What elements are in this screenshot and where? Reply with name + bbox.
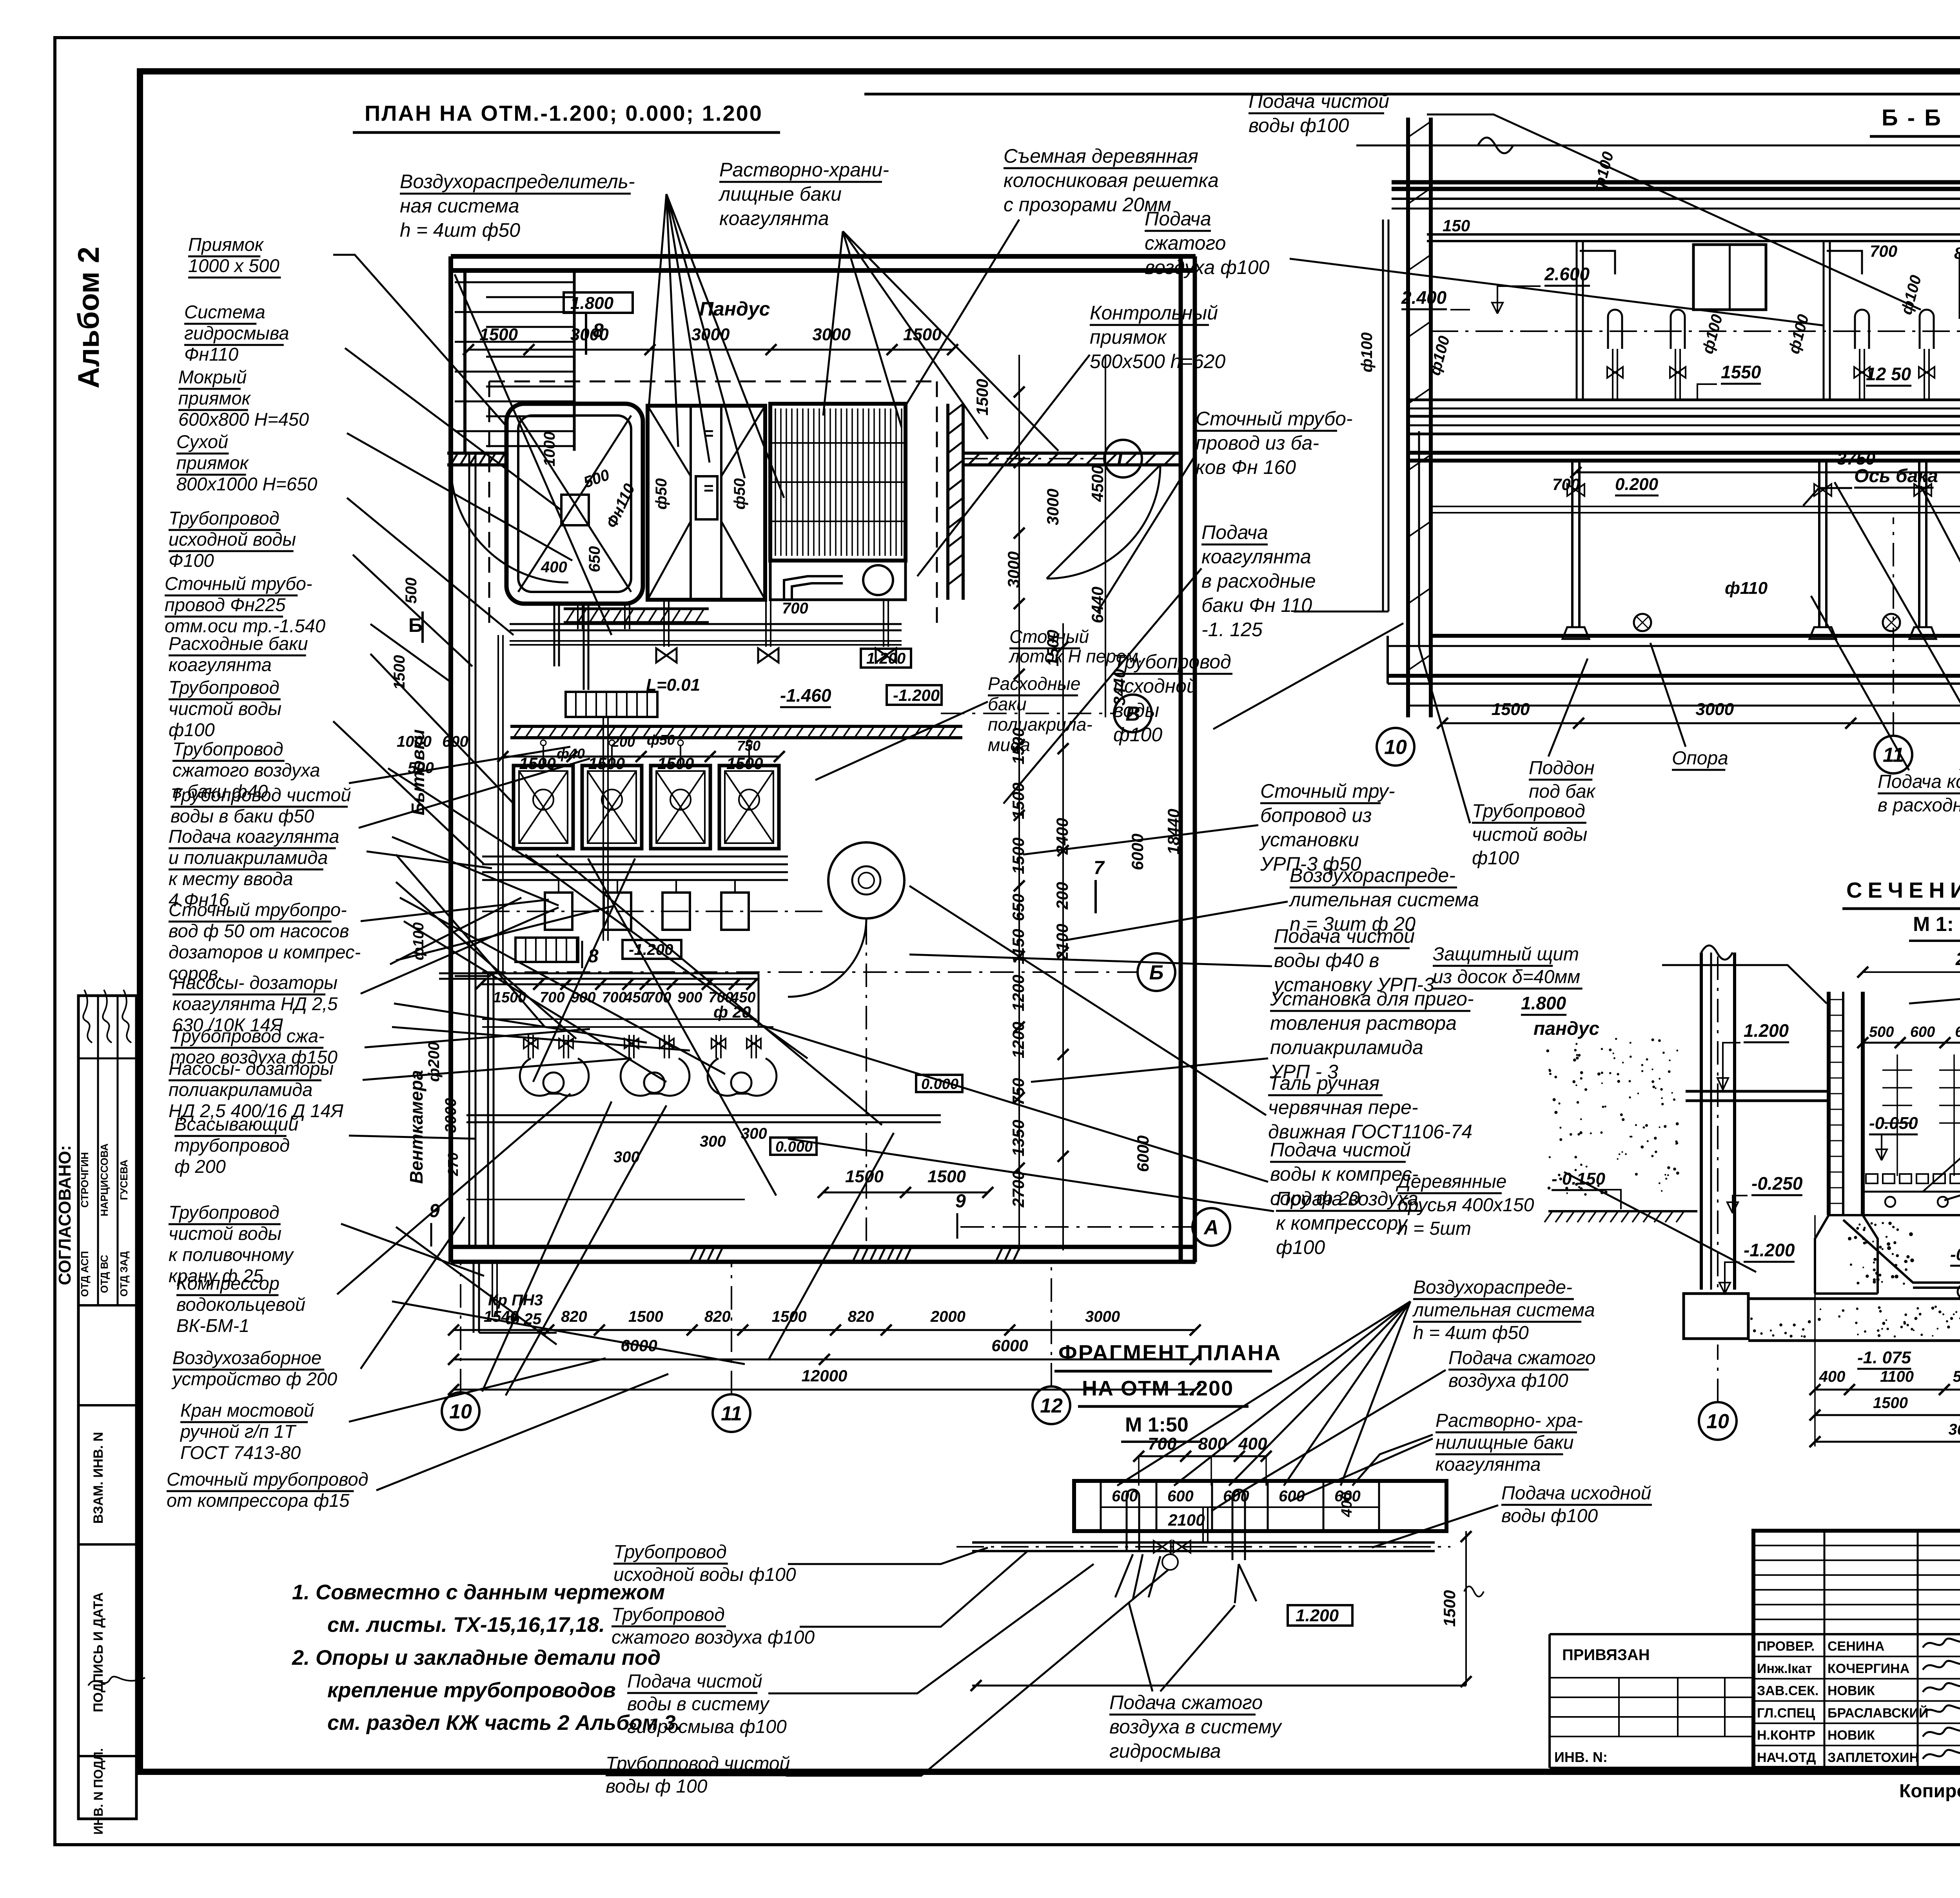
- leader line: [909, 886, 1266, 1115]
- svg-text:Ф100: Ф100: [169, 550, 214, 571]
- svg-text:ФРАГМЕНТ ПЛАНА: ФРАГМЕНТ ПЛАНА: [1058, 1340, 1282, 1365]
- label sistema gidrosmyva: [184, 301, 289, 365]
- svg-text:ф 200: ф 200: [174, 1156, 226, 1177]
- svg-text:ЗАПЛЕТОХИН: ЗАПЛЕТОХИН: [1828, 1750, 1919, 1765]
- fragment top dims: [1139, 1455, 1266, 1457]
- svg-text:-1.200: -1.200: [893, 686, 940, 704]
- svg-text:установки: установки: [1259, 829, 1359, 851]
- bb elbows at risers: [1580, 251, 1615, 274]
- svg-text:600: 600: [1955, 1024, 1960, 1040]
- svg-text:ОТД ВС: ОТД ВС: [98, 1255, 110, 1293]
- label truboprovod ishodnoj fragment: [613, 1542, 796, 1585]
- svg-text:Подача коагулянта: Подача коагулянта: [169, 826, 339, 847]
- bb dashdot line: [1431, 330, 1960, 332]
- svg-text:3000: 3000: [1085, 1308, 1120, 1325]
- internal hatched wall band: [510, 725, 962, 728]
- top dimension chain of plan: [468, 349, 953, 351]
- svg-text:6440: 6440: [1088, 587, 1107, 623]
- leader line: [370, 624, 451, 682]
- svg-text:1. Совместно с данным чертежо: 1. Совместно с данным чертежом: [292, 1580, 665, 1604]
- svg-text:1500: 1500: [628, 1308, 663, 1325]
- svg-text:750: 750: [1009, 1078, 1027, 1105]
- svg-text:воды ф40 в: воды ф40 в: [1274, 949, 1379, 971]
- svg-text:2.400: 2.400: [1401, 287, 1447, 308]
- svg-text:1500: 1500: [479, 325, 518, 344]
- leader line: [815, 702, 988, 780]
- leader line: [349, 1358, 606, 1422]
- svg-text:6000: 6000: [1134, 1136, 1152, 1172]
- svg-text:900: 900: [677, 989, 702, 1006]
- fragment bottom line: [972, 1685, 1466, 1687]
- svg-text:3000: 3000: [812, 325, 851, 344]
- svg-text:820: 820: [848, 1308, 874, 1325]
- svg-text:ная система: ная система: [400, 195, 519, 217]
- leader line: [917, 355, 1090, 576]
- label stochnyj truboprovod f50: [169, 899, 361, 983]
- svg-text:2100: 2100: [1053, 924, 1071, 961]
- svg-text:400: 400: [541, 559, 567, 576]
- leader fan: [823, 231, 843, 416]
- svg-text:гидросмыва: гидросмыва: [184, 323, 289, 343]
- manifold below baki: [482, 856, 788, 858]
- svg-text:400: 400: [1339, 1492, 1355, 1517]
- pipe risers below tank A: [577, 604, 579, 629]
- dim row small values: [481, 983, 752, 985]
- svg-text:1500: 1500: [1044, 630, 1062, 666]
- svg-text:h = 4шт ф50: h = 4шт ф50: [400, 219, 520, 241]
- svg-text:к месту ввода: к месту ввода: [169, 868, 293, 889]
- svg-text:-0.050: -0.050: [1869, 1114, 1918, 1133]
- leader line: [349, 747, 570, 783]
- svg-text:Расходные баки: Расходные баки: [169, 633, 308, 654]
- leader line: [909, 954, 1272, 966]
- svg-text:Трубопровод: Трубопровод: [169, 1202, 279, 1223]
- leader line: [370, 654, 514, 804]
- label nasosy dozatory poliakrilamida: [169, 1058, 344, 1121]
- svg-text:-1.200: -1.200: [1744, 1240, 1795, 1260]
- tank B channel: [690, 406, 692, 600]
- dim row 1500 x4: [503, 756, 779, 758]
- svg-text:500: 500: [403, 577, 420, 604]
- svg-text:8: 8: [593, 319, 604, 341]
- svg-text:18440: 18440: [1164, 809, 1183, 855]
- svg-text:1550: 1550: [1721, 362, 1761, 382]
- svg-text:ф50: ф50: [653, 478, 670, 510]
- chamber circle: [863, 565, 893, 595]
- leader line: [361, 907, 559, 994]
- label derevyannye brusya: [1396, 1171, 1534, 1239]
- svg-text:сжатого воздуха: сжатого воздуха: [172, 760, 320, 780]
- svg-text:М 1:50: М 1:50: [1125, 1414, 1189, 1436]
- bb manifold band: [1409, 399, 1960, 401]
- svg-text:-1. 075: -1. 075: [1857, 1348, 1911, 1367]
- label truboprovod ishodnoj vody: [169, 508, 296, 571]
- svg-text:от компрессора ф15: от компрессора ф15: [167, 1490, 350, 1511]
- svg-text:1500: 1500: [588, 754, 625, 773]
- fragment band outer: [1074, 1481, 1446, 1531]
- svg-text:и полиакриламида: и полиакриламида: [169, 847, 328, 868]
- svg-text:НОВИК: НОВИК: [1828, 1684, 1875, 1698]
- door swing arc left: [451, 465, 568, 582]
- svg-text:1500: 1500: [519, 754, 555, 773]
- svg-text:червячная пере-: червячная пере-: [1268, 1096, 1418, 1118]
- svg-text:1500: 1500: [1873, 1394, 1908, 1412]
- svg-text:1500: 1500: [903, 325, 942, 344]
- leader line: [1213, 623, 1403, 729]
- long vertical pipe left A: [468, 455, 470, 1247]
- svg-text:Бытовки: Бытовки: [408, 729, 428, 815]
- svg-text:крепление трубопроводов: крепление трубопроводов: [327, 1678, 616, 1702]
- svg-text:Трубопровод: Трубопровод: [169, 677, 279, 698]
- svg-text:ГУСЕВА: ГУСЕВА: [118, 1159, 130, 1200]
- svg-text:-0.320: -0.320: [1950, 1245, 1960, 1264]
- svg-text:КОЧЕРГИНА: КОЧЕРГИНА: [1828, 1661, 1909, 1676]
- bb capped risers with valves: [1608, 310, 1622, 349]
- svg-text:товления раствора: товления раствора: [1270, 1012, 1457, 1034]
- svg-text:400: 400: [1819, 1368, 1846, 1385]
- pipe bend bottom-left: [455, 975, 491, 977]
- label stochnyj truboprovod fn225: [165, 573, 325, 636]
- svg-text:Подача коагулянта: Подача коагулянта: [1878, 771, 1960, 792]
- label truboprovod chistoj fragment: [606, 1753, 790, 1797]
- svg-text:колосниковая решетка: колосниковая решетка: [1004, 169, 1219, 191]
- svg-text:Подача чистой: Подача чистой: [1274, 925, 1415, 947]
- svg-text:коагулянта: коагулянта: [1436, 1454, 1541, 1475]
- stairs lower: [515, 938, 578, 962]
- svg-text:Растворно- хра-: Растворно- хра-: [1436, 1410, 1583, 1431]
- svg-text:-1. 125: -1. 125: [1201, 619, 1263, 641]
- svg-text:Трубопровод: Трубопровод: [1113, 651, 1231, 673]
- label suhoj priyamok: [176, 431, 317, 494]
- svg-text:3000: 3000: [442, 1098, 459, 1133]
- svg-text:Трубопровод: Трубопровод: [613, 1542, 727, 1562]
- svg-text:450: 450: [624, 989, 649, 1006]
- svg-text:водокольцевой: водокольцевой: [176, 1294, 305, 1315]
- svg-text:НАЧ.ОТД: НАЧ.ОТД: [1757, 1750, 1816, 1765]
- leader line: [1427, 114, 1921, 310]
- svg-text:9: 9: [955, 1191, 966, 1212]
- stairs mid plan: [566, 692, 657, 717]
- svg-text:Подача исходной: Подача исходной: [1501, 1483, 1651, 1504]
- svg-text:Подача сжатого: Подача сжатого: [1109, 1691, 1263, 1713]
- svg-text:ГОСТ 7413-80: ГОСТ 7413-80: [180, 1442, 301, 1463]
- svg-text:гидросмыва: гидросмыва: [1109, 1740, 1221, 1762]
- label podacha koagulyanta v rashodnye baki: [1201, 521, 1316, 641]
- svg-text:баки Фн 110: баки Фн 110: [1201, 594, 1312, 616]
- label truboprovod chistoj vody bb: [1472, 801, 1587, 869]
- bb tall risers: [1576, 241, 1578, 400]
- label podacha szhatogo fragment: [1448, 1348, 1596, 1391]
- svg-text:700: 700: [1870, 242, 1897, 260]
- bb axis circle 10: [1377, 728, 1414, 766]
- extra leader diagonals left zone: [396, 855, 545, 1027]
- bb dims above tank zone: [1576, 472, 1960, 474]
- bb base circles: [1634, 614, 1651, 631]
- svg-text:Копировал: Коршунова: Копировал: Коршунова: [1899, 1781, 1960, 1802]
- svg-text:Трубопровод чистой: Трубопровод чистой: [171, 784, 351, 805]
- svg-text:Поддон: Поддон: [1529, 758, 1595, 778]
- tank A outer (mokryj priyamok): [506, 404, 643, 604]
- svg-text:Трубопровод чистой: Трубопровод чистой: [606, 1753, 790, 1774]
- svg-text:-1.460: -1.460: [780, 685, 831, 706]
- label podacha szhatogo vozduha f100: [1145, 208, 1270, 278]
- label podacha szhatogo v gidrosmyv fragment: [1109, 1691, 1283, 1762]
- svg-text:лительная система: лительная система: [1412, 1300, 1595, 1321]
- leader line: [1004, 568, 1201, 804]
- svg-text:650: 650: [586, 546, 603, 572]
- label mokryj priyamok: [178, 367, 309, 430]
- label stochnyj lotok: [1008, 626, 1143, 666]
- svg-text:ф100: ф100: [1276, 1236, 1325, 1258]
- svg-text:3000: 3000: [1004, 552, 1023, 588]
- svg-text:Альбом 2: Альбом 2: [72, 247, 105, 388]
- svg-text:Приямок: Приямок: [188, 234, 264, 255]
- svg-text:Б: Б: [408, 614, 423, 636]
- label podacha chistoj v sistemu fragment: [627, 1671, 787, 1737]
- svg-text:воды ф100: воды ф100: [1249, 114, 1349, 136]
- svg-text:ЗАВ.СЕК.: ЗАВ.СЕК.: [1757, 1684, 1818, 1698]
- label rashodnye baki koagulyanta: [169, 633, 308, 675]
- nasosy dozatory small boxes: [545, 893, 572, 930]
- label podacha chistoj vody f100: [1249, 90, 1389, 136]
- svg-text:2. Опоры и закладные детали по: 2. Опоры и закладные детали под: [292, 1646, 661, 1669]
- svg-text:Трубопровод: Трубопровод: [172, 739, 283, 759]
- svg-text:коагулянта НД 2,5: коагулянта НД 2,5: [172, 993, 338, 1014]
- label vozduhoraspredelit sistema n3: [1289, 864, 1479, 935]
- aa pandus speckled ramp: [1630, 1042, 1632, 1044]
- label podacha koagulyanta v rashodnye bb: [1878, 771, 1960, 816]
- aa grate row: [1866, 1174, 1960, 1183]
- svg-text:ПРОВЕР.: ПРОВЕР.: [1757, 1639, 1815, 1654]
- svg-text:1500: 1500: [391, 655, 408, 690]
- stamp box vzam inv: [78, 1404, 136, 1406]
- svg-text:1100: 1100: [1880, 1368, 1914, 1385]
- svg-text:650: 650: [1009, 894, 1027, 921]
- svg-text:9: 9: [429, 1201, 440, 1221]
- svg-text:12 50: 12 50: [1866, 364, 1911, 384]
- svg-text:Сточный трубопровод: Сточный трубопровод: [167, 1469, 368, 1490]
- leader line: [1098, 455, 1196, 611]
- svg-text:1500: 1500: [1440, 1590, 1459, 1627]
- svg-text:приямок: приямок: [1090, 326, 1167, 348]
- label podacha chistoj vody f40: [1273, 925, 1434, 996]
- svg-text:1.200: 1.200: [1296, 1606, 1339, 1625]
- aa bottom dim rows: [1815, 1389, 1960, 1391]
- svg-text:Сточный трубо-: Сточный трубо-: [1196, 408, 1353, 430]
- svg-text:коагулянта: коагулянта: [719, 207, 829, 229]
- label vsasyvayushchij truboprovod: [174, 1114, 298, 1177]
- label stochnyj iz ustanovki urp-3: [1259, 780, 1395, 875]
- svg-text:ф110: ф110: [1725, 579, 1768, 598]
- svg-text:Контрольный: Контрольный: [1090, 302, 1218, 324]
- svg-text:1150: 1150: [1009, 929, 1027, 964]
- svg-text:Воздухораспреде-: Воздухораспреде-: [1290, 864, 1455, 886]
- aa floor left: [1686, 1090, 1829, 1093]
- pump groups: [519, 1027, 589, 1096]
- svg-text:h = 4шт ф50: h = 4шт ф50: [1413, 1323, 1529, 1343]
- svg-text:10: 10: [1384, 736, 1407, 759]
- svg-text:воды ф 100: воды ф 100: [606, 1776, 708, 1797]
- svg-text:1000 х 500: 1000 х 500: [188, 255, 279, 276]
- svg-text:Установка для приго-: Установка для приго-: [1270, 988, 1474, 1010]
- svg-text:1500: 1500: [845, 1167, 884, 1186]
- svg-text:800: 800: [1954, 244, 1960, 262]
- svg-text:Трубопровод сжа-: Трубопровод сжа-: [171, 1025, 325, 1046]
- label podacha chistoj vody k kompressoru: [1270, 1139, 1419, 1209]
- label podacha vozduha k kompressoru: [1276, 1188, 1422, 1258]
- left wall hatched band: [447, 452, 506, 455]
- stamp box podpis i data: [78, 1755, 136, 1757]
- left stamp table outer: [78, 996, 136, 1819]
- svg-text:НАРЦИССОВА: НАРЦИССОВА: [98, 1143, 110, 1216]
- svg-text:из досок δ=40мм: из досок δ=40мм: [1433, 967, 1580, 987]
- dashed inner boundary: [489, 381, 937, 383]
- svg-text:к поливочному: к поливочному: [169, 1244, 294, 1265]
- svg-text:150: 150: [1443, 216, 1470, 235]
- svg-text:6000: 6000: [1128, 834, 1147, 870]
- label rastvorno-hranilishchnye baki: [718, 159, 889, 229]
- svg-text:СОГЛАСОВАНО:: СОГЛАСОВАНО:: [55, 1145, 74, 1285]
- aa top dim 2400: [1863, 971, 1960, 973]
- title block thin rows: [1753, 1545, 1960, 1546]
- svg-text:СЕЧЕНИЕ А-А: СЕЧЕНИЕ А-А: [1846, 878, 1960, 902]
- svg-text:воды в баки ф50: воды в баки ф50: [171, 806, 314, 826]
- svg-text:Мокрый: Мокрый: [178, 367, 247, 387]
- svg-text:ф50: ф50: [731, 478, 748, 510]
- svg-text:СТРОЧГИН: СТРОЧГИН: [79, 1152, 91, 1208]
- fragment band cells: [1100, 1481, 1102, 1531]
- bb top pipe line: [1356, 145, 1960, 147]
- pipe manifold y2620: [482, 1018, 757, 1020]
- svg-text:500: 500: [1869, 1024, 1894, 1040]
- bb floor slab: [1431, 634, 1960, 638]
- vertical pipe pair extra: [497, 635, 499, 972]
- svg-text:2100: 2100: [1168, 1511, 1205, 1529]
- svg-text:1.800: 1.800: [570, 294, 614, 313]
- hatched strip y1565: [564, 608, 709, 610]
- label podacha ishodnoj fragment: [1501, 1483, 1652, 1526]
- svg-text:Б - Б: Б - Б: [1882, 105, 1942, 131]
- svg-text:Воздухораспределитель-: Воздухораспределитель-: [400, 171, 635, 192]
- valves under tanks: [656, 648, 677, 662]
- svg-text:НА ОТМ 1.200: НА ОТМ 1.200: [1082, 1377, 1234, 1400]
- label podacha koagulyanta k mestu vvoda: [169, 826, 339, 910]
- svg-text:Инж.Iкат: Инж.Iкат: [1757, 1661, 1812, 1676]
- svg-text:2700: 2700: [1009, 1171, 1027, 1208]
- svg-text:Таль ручная: Таль ручная: [1268, 1072, 1379, 1094]
- svg-text:1500: 1500: [1492, 700, 1530, 719]
- svg-text:300: 300: [700, 1133, 726, 1150]
- svg-text:А: А: [1203, 1216, 1219, 1239]
- level box 0.000 a: [916, 1075, 962, 1092]
- aa diagonal under stones: [1923, 1054, 1960, 1192]
- svg-text:воздуха в систему: воздуха в систему: [1109, 1716, 1283, 1738]
- plan ramp hatch top-left (pandus): [455, 282, 574, 446]
- arc door lower: [788, 918, 866, 997]
- title block main outline: [1753, 1531, 1960, 1768]
- level box -1.200 lower: [622, 940, 681, 959]
- svg-text:1200: 1200: [1009, 1022, 1027, 1058]
- label truboprovod k polivochnomu kranu: [169, 1202, 294, 1286]
- svg-text:чистой воды: чистой воды: [169, 698, 281, 719]
- svg-text:ГЛ.СПЕЦ: ГЛ.СПЕЦ: [1757, 1706, 1815, 1720]
- svg-text:в расходные баки ф110: в расходные баки ф110: [1878, 795, 1960, 816]
- svg-text:Ось бака: Ось бака: [1854, 466, 1938, 486]
- label truboprovod szhatogo fragment: [612, 1604, 815, 1648]
- diagonal across ramp: [455, 274, 612, 635]
- leader line: [337, 1094, 570, 1294]
- svg-text:Трубопровод: Трубопровод: [1472, 801, 1585, 822]
- svg-text:баки: баки: [988, 694, 1027, 714]
- leader line: [347, 498, 514, 635]
- svg-text:Система: Система: [184, 301, 265, 322]
- axis circle A: [1192, 1208, 1230, 1246]
- svg-text:чистой воды: чистой воды: [1472, 824, 1587, 845]
- svg-text:воды к компрес-: воды к компрес-: [1270, 1163, 1419, 1185]
- right vertical dim chains of plan: [1018, 355, 1020, 1250]
- svg-text:ИНВ. N ПОДЛ.: ИНВ. N ПОДЛ.: [91, 1748, 105, 1835]
- svg-text:коагулянта: коагулянта: [1201, 546, 1311, 568]
- svg-text:1000: 1000: [541, 432, 558, 466]
- svg-text:1200: 1200: [1009, 975, 1027, 1011]
- aa water dashes: [1896, 1054, 1898, 1176]
- svg-text:Расходные: Расходные: [988, 673, 1081, 694]
- svg-text:брусья 400х150: брусья 400х150: [1397, 1195, 1534, 1216]
- bottom dim chain row2: [454, 1359, 1195, 1361]
- svg-text:Н.КОНТР: Н.КОНТР: [1757, 1728, 1815, 1743]
- leader line: [365, 1029, 590, 1047]
- label kran mostovoj: [180, 1400, 314, 1463]
- svg-text:ПЛАН НА ОТМ.-1.200; 0.000; 1.2: ПЛАН НА ОТМ.-1.200; 0.000; 1.200: [365, 101, 763, 125]
- svg-text:провод из ба-: провод из ба-: [1196, 432, 1319, 454]
- plan building outer walls: [451, 254, 1196, 259]
- four rashodnye baki tanks: [514, 740, 573, 849]
- svg-text:бопровод из: бопровод из: [1260, 804, 1372, 826]
- svg-text:ф200: ф200: [425, 1042, 443, 1082]
- svg-text:200: 200: [1053, 882, 1071, 910]
- leader line: [349, 1136, 476, 1139]
- svg-text:В: В: [1125, 703, 1140, 726]
- svg-text:3000: 3000: [1044, 489, 1062, 525]
- svg-text:Компрессор: Компрессор: [176, 1273, 279, 1294]
- aa left wall column: [1700, 953, 1703, 1290]
- svg-text:Сточный трубо-: Сточный трубо-: [165, 573, 312, 594]
- aa air pipe circles: [1885, 1197, 1895, 1207]
- svg-text:600х800 Н=450: 600х800 Н=450: [178, 409, 309, 430]
- privyazan block: [1550, 1633, 1753, 1635]
- svg-text:под бак: под бак: [1529, 781, 1596, 802]
- svg-text:=: =: [704, 424, 714, 443]
- leader line: [361, 1217, 465, 1369]
- svg-text:Насосы- дозаторы: Насосы- дозаторы: [172, 972, 338, 993]
- leader line: [333, 721, 484, 864]
- label truboprovod szhatogo vozduha v baki: [172, 739, 320, 802]
- fragment level box 1.200: [1288, 1605, 1352, 1626]
- svg-text:ф50: ф50: [647, 732, 675, 748]
- label rashodnye baki poliakrilamida: [988, 673, 1093, 755]
- svg-text:воздуха ф100: воздуха ф100: [1448, 1370, 1568, 1391]
- axis circle 12 bottom: [1033, 1386, 1070, 1424]
- tank C lower chamber: [770, 561, 906, 600]
- label truboprovod szhatogo vozduha f150: [171, 1025, 338, 1067]
- svg-text:Защитный щит: Защитный щит: [1433, 944, 1579, 965]
- svg-text:1.200: 1.200: [866, 650, 906, 667]
- bb ceiling band: [1392, 180, 1960, 185]
- leader line: [1062, 902, 1288, 941]
- fan leaders across pump area: [400, 898, 725, 1074]
- svg-text:500: 500: [1953, 1368, 1960, 1385]
- svg-text:Подача чистой: Подача чистой: [1270, 1139, 1411, 1161]
